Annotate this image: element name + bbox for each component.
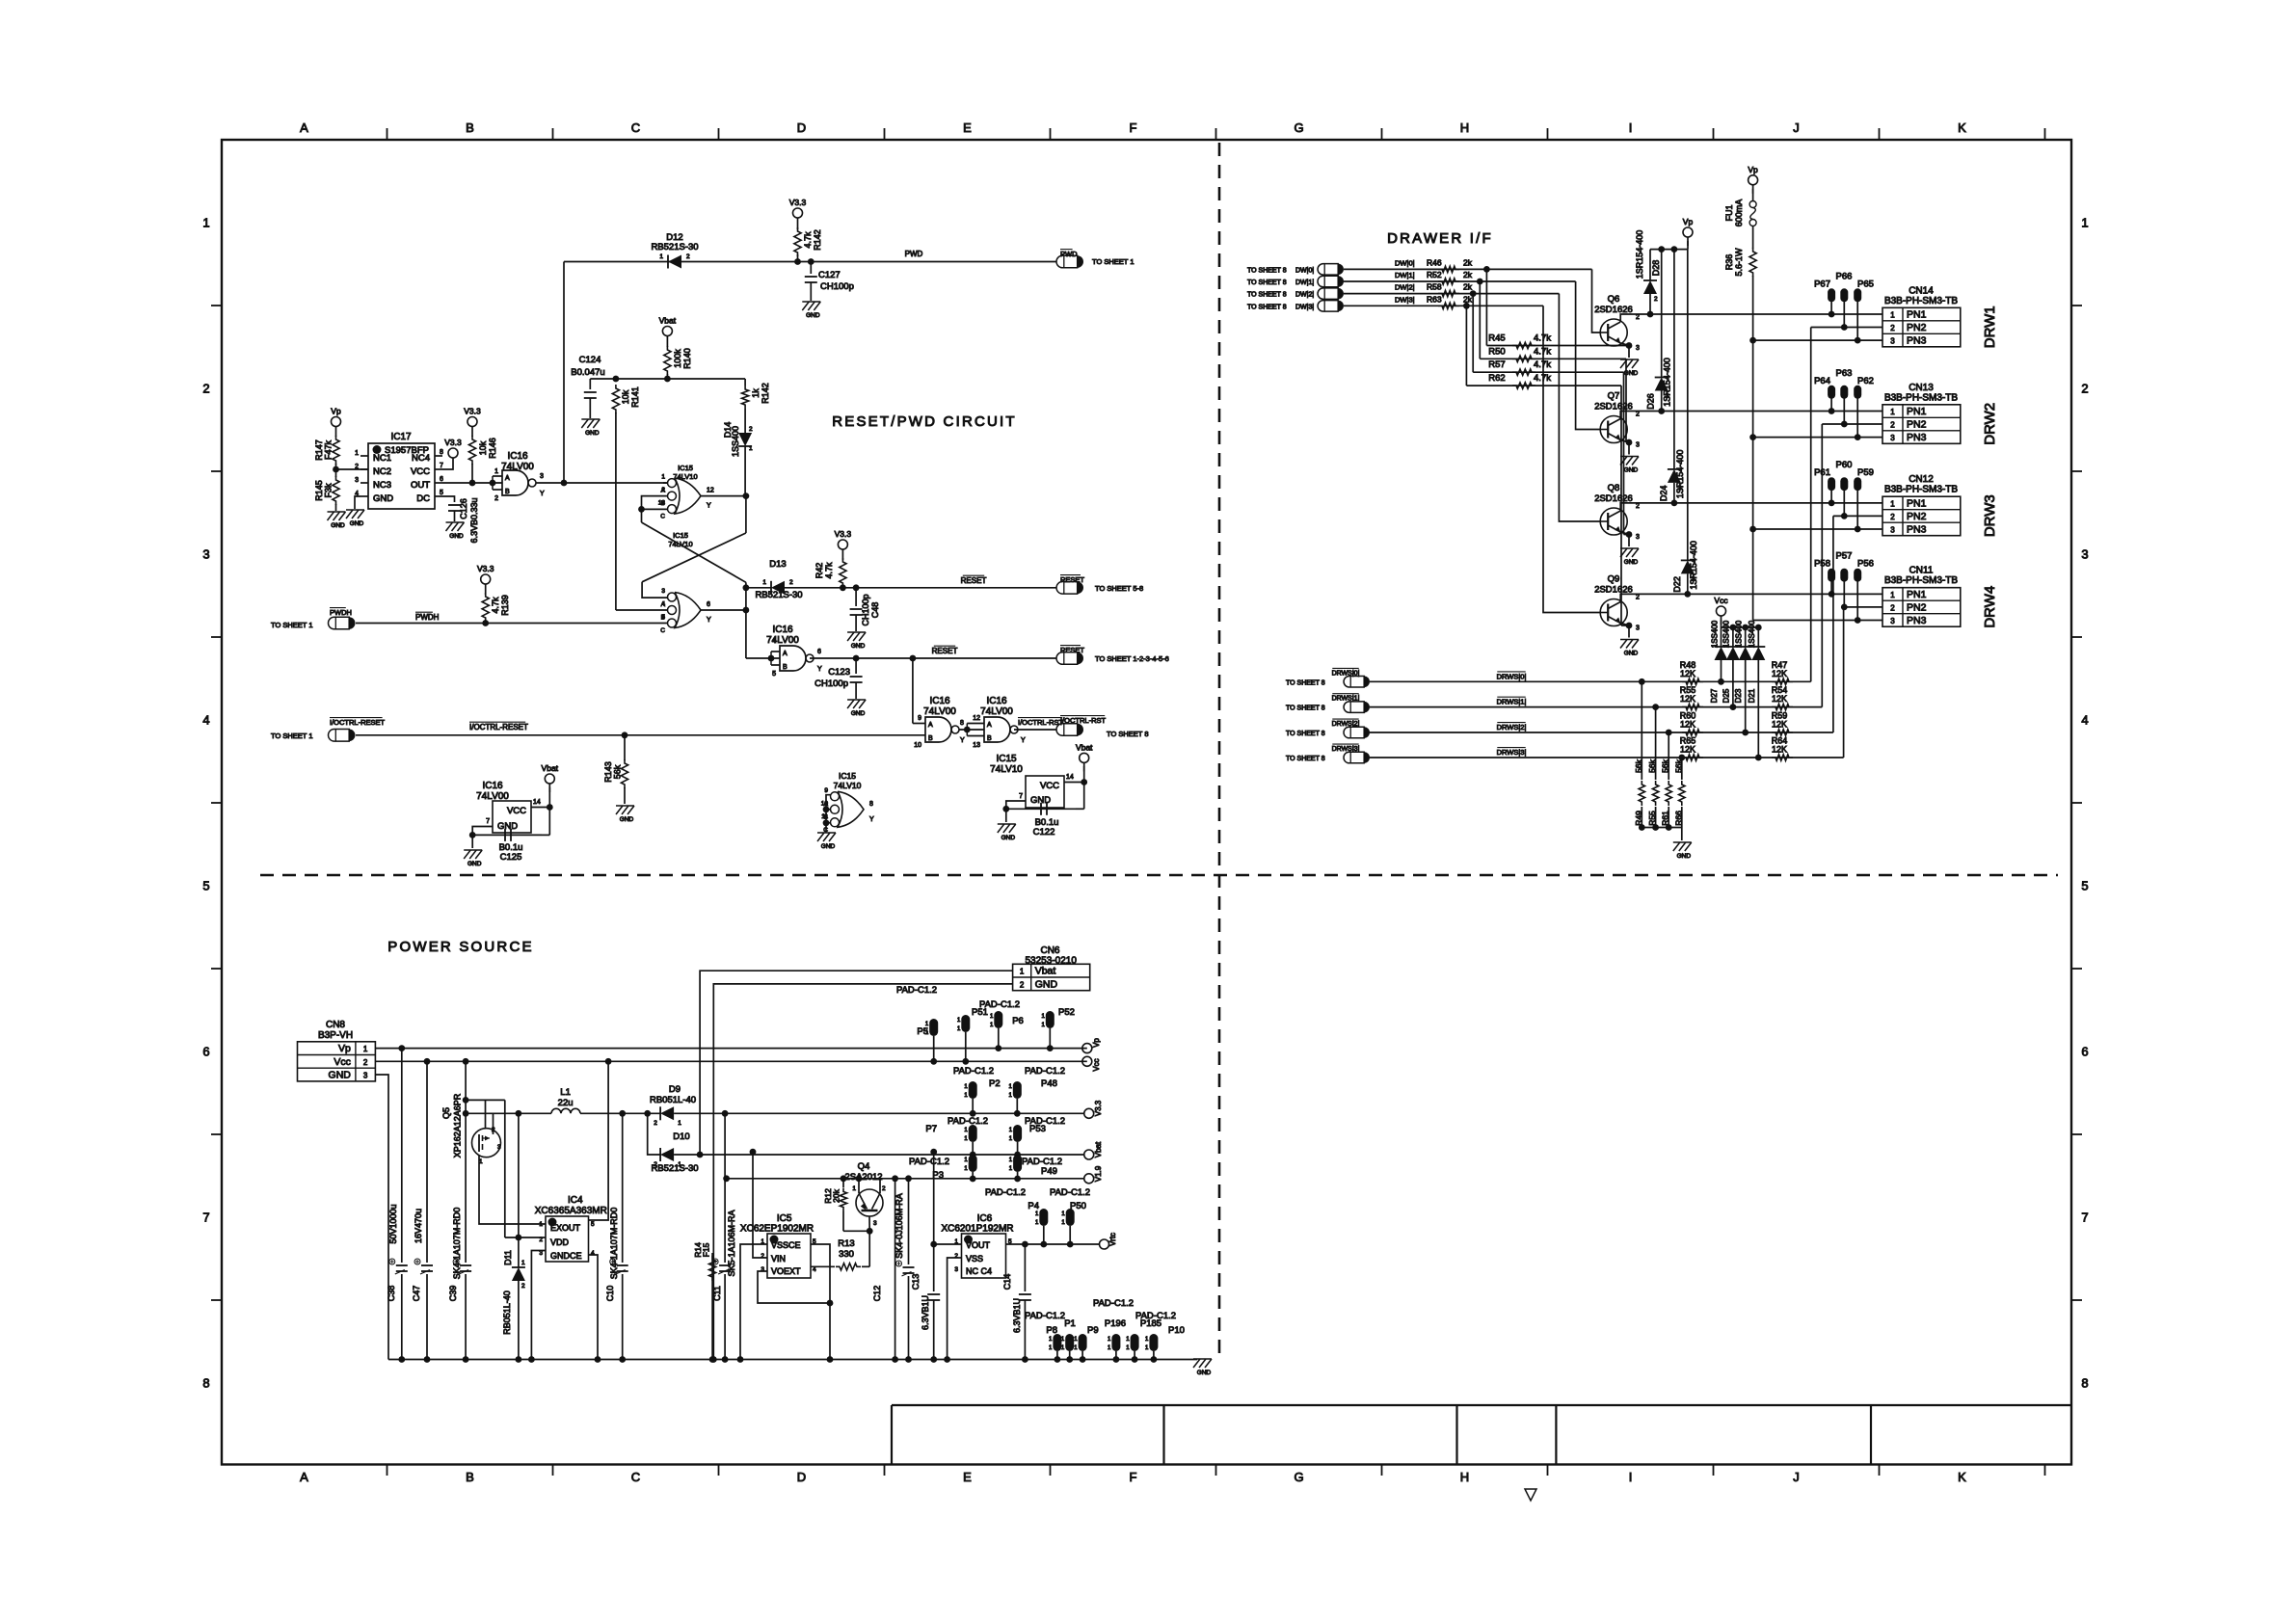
svg-text:PN2: PN2 — [1907, 602, 1927, 614]
svg-text:RB521S-30: RB521S-30 — [651, 242, 698, 253]
svg-text:GND: GND — [1624, 651, 1639, 657]
svg-text:4.7k: 4.7k — [1534, 346, 1551, 357]
svg-text:Q6: Q6 — [1608, 294, 1620, 305]
junction to NAND C — [910, 655, 917, 662]
svg-text:Vbat: Vbat — [1035, 966, 1056, 977]
svg-text:1SS400: 1SS400 — [1710, 620, 1719, 648]
wire PN3 CN13 — [1753, 437, 1882, 439]
svg-text:PAD-C1.2: PAD-C1.2 — [953, 1066, 994, 1077]
svg-text:IC16: IC16 — [986, 696, 1007, 706]
svg-text:50V1000u: 50V1000u — [388, 1204, 398, 1243]
svg-text:Y: Y — [707, 617, 711, 624]
svg-text:C14: C14 — [1002, 1274, 1012, 1290]
svg-text:1: 1 — [749, 445, 753, 452]
svg-text:2: 2 — [1636, 595, 1640, 601]
svg-text:P59: P59 — [1857, 467, 1874, 478]
svg-text:CH100p: CH100p — [861, 594, 870, 625]
svg-text:P1: P1 — [1064, 1318, 1076, 1329]
resistor R140 100k — [666, 345, 668, 348]
capacitor C123 CH100p — [855, 658, 857, 674]
svg-text:2: 2 — [686, 253, 690, 260]
svg-text:GND: GND — [497, 821, 518, 832]
svg-text:2: 2 — [1666, 393, 1669, 400]
svg-text:20k: 20k — [832, 1188, 841, 1202]
svg-text:R55: R55 — [1647, 811, 1657, 826]
svg-text:D9: D9 — [669, 1084, 681, 1095]
wire D14 to latch — [743, 492, 750, 499]
wire V1.9 rail — [727, 1178, 1084, 1180]
svg-text:Y: Y — [540, 491, 545, 497]
svg-text:2k: 2k — [1463, 270, 1473, 279]
wire Q9 emitter to gnd — [1620, 624, 1629, 626]
svg-text:1: 1 — [494, 468, 498, 475]
svg-text:R42: R42 — [814, 563, 824, 579]
svg-text:B3B-PH-SM3-TB: B3B-PH-SM3-TB — [1884, 485, 1958, 495]
svg-text:F15: F15 — [702, 1242, 711, 1257]
svg-text:Y: Y — [960, 737, 965, 744]
capacitor C12 SK4-0J106M-RA — [892, 1175, 898, 1182]
wire IC4 pin2 VDD — [505, 1237, 546, 1238]
svg-text:RESET: RESET — [961, 576, 987, 585]
svg-text:2: 2 — [363, 1058, 368, 1067]
svg-text:TO SHEET 8: TO SHEET 8 — [1107, 730, 1149, 738]
svg-text:C124: C124 — [579, 355, 601, 365]
diode D22 1SR154-400 — [1687, 250, 1689, 561]
svg-text:Vp: Vp — [1748, 165, 1758, 174]
wire DW1 down to emitter resistor — [1479, 281, 1481, 359]
svg-text:PN2: PN2 — [1907, 419, 1927, 431]
svg-text:2: 2 — [1890, 421, 1895, 430]
wire IC5 pin5 — [811, 1244, 830, 1360]
svg-text:1SS400: 1SS400 — [731, 426, 740, 457]
resistor R142 4.7k — [797, 226, 799, 229]
svg-text:1: 1 — [852, 1185, 856, 1192]
capacitor C48 CH100p — [855, 588, 857, 606]
svg-text:F3k: F3k — [324, 483, 334, 498]
svg-text:C122: C122 — [1033, 827, 1055, 838]
resistor R57 4.7k — [1473, 371, 1623, 373]
svg-text:GND: GND — [1677, 853, 1692, 860]
wire L1 node line to D9 — [580, 1112, 660, 1114]
spare gate input ties — [826, 795, 831, 823]
svg-text:8: 8 — [202, 1376, 209, 1391]
svg-text:2: 2 — [654, 1120, 657, 1127]
svg-text:IC16: IC16 — [772, 625, 793, 635]
svg-text:I/OCTRL-RESET: I/OCTRL-RESET — [330, 718, 386, 727]
svg-text:H: H — [1460, 1470, 1469, 1484]
wire IC16A output — [536, 482, 668, 484]
svg-text:5: 5 — [202, 879, 209, 893]
svg-text:R139: R139 — [500, 595, 510, 616]
svg-text:C123: C123 — [828, 667, 850, 678]
wire DW0 row — [1344, 268, 1486, 270]
svg-text:TO SHEET 8: TO SHEET 8 — [1286, 705, 1325, 712]
capacitor C124 B0.047u — [589, 379, 591, 389]
wire PN3 CN12 — [1753, 528, 1882, 530]
svg-text:PN1: PN1 — [1907, 406, 1927, 417]
svg-text:74LV10: 74LV10 — [834, 781, 862, 790]
svg-text:C47: C47 — [412, 1286, 421, 1302]
resistor R50 4.7k — [1480, 358, 1626, 359]
wire Q4 base to rail — [858, 1179, 860, 1193]
svg-text:TO SHEET 8: TO SHEET 8 — [1286, 756, 1325, 762]
svg-text:2: 2 — [761, 1253, 764, 1260]
svg-text:1: 1 — [1890, 500, 1895, 509]
resistor R145 F3k — [335, 469, 337, 477]
svg-text:D21: D21 — [1748, 688, 1756, 703]
svg-text:R36: R36 — [1724, 254, 1734, 271]
svg-text:6: 6 — [707, 601, 710, 608]
resistor R59 12K — [1772, 730, 1793, 735]
svg-text:P196: P196 — [1105, 1318, 1126, 1329]
svg-text:DW|1|: DW|1| — [1295, 279, 1314, 286]
svg-text:TO SHEET 8: TO SHEET 8 — [1247, 267, 1287, 274]
svg-text:Q9: Q9 — [1608, 574, 1620, 585]
svg-text:56k: 56k — [613, 764, 623, 779]
IC17 pin4 gnd — [355, 496, 360, 509]
svg-text:B0.047u: B0.047u — [571, 367, 604, 378]
svg-text:C: C — [631, 120, 640, 135]
svg-text:2SA2012: 2SA2012 — [844, 1172, 882, 1183]
wire CN6 gnd riser — [713, 984, 1012, 1360]
resistor R63 2k — [1438, 303, 1459, 308]
power V3.3 at R146 — [471, 427, 473, 436]
svg-text:74LV00: 74LV00 — [923, 706, 956, 717]
junction C123 — [853, 655, 860, 662]
svg-text:P60: P60 — [1836, 460, 1853, 470]
svg-text:PAD-C1.2: PAD-C1.2 — [896, 985, 937, 996]
junction OUT column — [561, 480, 568, 487]
svg-text:IC15: IC15 — [673, 531, 688, 540]
capacitor C126 — [442, 496, 455, 502]
svg-text:D: D — [797, 120, 806, 135]
svg-text:8: 8 — [440, 449, 443, 456]
svg-text:CN13: CN13 — [1909, 383, 1934, 393]
svg-text:2: 2 — [1654, 296, 1658, 303]
wire PN2 CN13 — [1822, 423, 1882, 425]
resistor R14 F15 — [711, 1253, 713, 1360]
svg-text:PAD-C1.2: PAD-C1.2 — [985, 1187, 1026, 1198]
svg-text:GND: GND — [1001, 835, 1016, 841]
capacitor C13 6.3VB1U — [933, 1152, 935, 1291]
wire gate B output /RESET — [810, 657, 1056, 659]
wire IC6 pin1 from Vbat column — [934, 1243, 962, 1245]
svg-text:C126: C126 — [459, 498, 468, 519]
svg-text:2: 2 — [494, 495, 498, 502]
svg-text:R145: R145 — [314, 480, 324, 501]
power out V3.3 circle — [1084, 1108, 1094, 1118]
svg-text:2: 2 — [1020, 980, 1025, 989]
svg-text:DW|2|: DW|2| — [1295, 292, 1314, 299]
svg-text:5: 5 — [2081, 879, 2088, 893]
svg-text:J: J — [1793, 120, 1800, 135]
svg-text:PWDH: PWDH — [330, 608, 352, 617]
diode D28 1SR154-400 — [1649, 250, 1651, 280]
wire DW0 down to emitter resistor — [1485, 269, 1487, 345]
svg-text:V3.3: V3.3 — [444, 438, 462, 447]
svg-text:P7: P7 — [925, 1124, 937, 1134]
svg-text:DC: DC — [416, 493, 430, 504]
svg-text:VSSCE: VSSCE — [771, 1240, 801, 1250]
capacitor C10 SK4-1A107M-RD0 — [622, 1113, 624, 1263]
svg-text:3: 3 — [363, 1072, 368, 1080]
power V3.3 at R42 — [841, 549, 843, 558]
svg-text:R50: R50 — [1488, 346, 1505, 357]
resistor R55 12K — [1682, 704, 1703, 709]
power out Vrtc circle — [1100, 1239, 1109, 1249]
svg-text:6.3VB1U: 6.3VB1U — [1012, 1298, 1022, 1333]
svg-text:3: 3 — [202, 547, 209, 562]
svg-text:PN3: PN3 — [1907, 524, 1927, 536]
svg-text:2: 2 — [1692, 575, 1695, 582]
svg-text:GND: GND — [1035, 978, 1058, 990]
svg-text:P57: P57 — [1836, 551, 1853, 562]
svg-text:B: B — [987, 735, 992, 742]
svg-text:Vcc: Vcc — [1714, 596, 1728, 605]
svg-text:600mA: 600mA — [1734, 200, 1744, 227]
svg-text:Vcc: Vcc — [1092, 1058, 1101, 1071]
svg-text:DRWS|0|: DRWS|0| — [1497, 672, 1527, 680]
wire Q5 drain — [466, 1099, 505, 1101]
svg-text:IC4: IC4 — [568, 1195, 583, 1206]
svg-text:3: 3 — [2081, 547, 2088, 562]
svg-text:R61: R61 — [1661, 811, 1670, 826]
svg-text:2: 2 — [1636, 412, 1640, 418]
svg-text:I: I — [1629, 120, 1633, 135]
svg-text:10k: 10k — [478, 440, 488, 455]
wire IC17 OUT to IC16 gate — [442, 482, 502, 484]
svg-text:74LV10: 74LV10 — [668, 540, 692, 548]
svg-text:RESET: RESET — [932, 647, 958, 655]
svg-text:14: 14 — [1066, 774, 1074, 781]
wire DW3 row — [1344, 305, 1466, 306]
resistor R36 5.6-1W — [1752, 226, 1754, 250]
resistor R64 12K — [1772, 755, 1793, 760]
svg-text:DW|2|: DW|2| — [1395, 283, 1415, 292]
power Vp rail top — [1687, 237, 1689, 246]
svg-text:R52: R52 — [1427, 270, 1442, 279]
svg-text:4: 4 — [202, 713, 209, 728]
wire DW3 down to emitter resistor — [1465, 306, 1467, 386]
diode D11 — [516, 1235, 522, 1241]
svg-text:14: 14 — [533, 799, 541, 806]
svg-text:2: 2 — [789, 579, 793, 586]
title block — [892, 1404, 2071, 1406]
svg-text:P6: P6 — [1012, 1016, 1024, 1026]
power out Vp circle — [1082, 1044, 1092, 1053]
svg-text:R57: R57 — [1488, 359, 1505, 370]
svg-text:F: F — [1130, 120, 1137, 135]
resistor R52 2k — [1438, 279, 1459, 284]
svg-text:VSS: VSS — [966, 1254, 983, 1264]
svg-text:IC15: IC15 — [678, 464, 693, 472]
svg-text:GND: GND — [821, 843, 836, 850]
svg-text:IC17: IC17 — [390, 432, 412, 442]
svg-text:D26: D26 — [1646, 393, 1656, 410]
svg-text:74LV10: 74LV10 — [673, 472, 697, 481]
capacitor C11 SK5-1A106M-RA — [724, 1113, 726, 1263]
svg-text:DRWS|2|: DRWS|2| — [1497, 723, 1527, 732]
junction DW2 — [1470, 290, 1477, 297]
svg-text:A: A — [300, 120, 308, 135]
svg-text:PN1: PN1 — [1907, 309, 1927, 321]
junction diode col 0 — [1718, 678, 1724, 685]
svg-text:J: J — [1793, 1470, 1800, 1484]
junction DW1 — [1477, 279, 1483, 285]
svg-text:PN2: PN2 — [1907, 322, 1927, 333]
svg-text:CH100p: CH100p — [814, 678, 848, 689]
svg-text:NC3: NC3 — [373, 480, 391, 491]
svg-text:C125: C125 — [500, 852, 522, 863]
svg-text:1: 1 — [1890, 311, 1895, 320]
svg-text:13: 13 — [973, 742, 980, 749]
svg-text:C: C — [631, 1470, 640, 1484]
svg-text:Vbat: Vbat — [1094, 1141, 1103, 1157]
resistor R12 20k — [841, 1175, 847, 1182]
resistor R45 4.7k — [1486, 345, 1629, 347]
wire IC5 pin2 VIN — [753, 1152, 767, 1258]
svg-text:VOUT: VOUT — [966, 1240, 991, 1250]
svg-text:3: 3 — [1890, 337, 1895, 346]
svg-text:4.7k: 4.7k — [1534, 333, 1551, 344]
svg-text:R62: R62 — [1488, 373, 1505, 384]
junction DW3 — [1463, 303, 1470, 309]
diode D27 1SS400 — [1721, 627, 1722, 647]
svg-text:R45: R45 — [1488, 333, 1505, 344]
svg-text:DW|3|: DW|3| — [1395, 295, 1415, 304]
svg-text:C11: C11 — [712, 1286, 722, 1301]
svg-text:3: 3 — [540, 473, 544, 480]
svg-text:2: 2 — [521, 1283, 525, 1290]
wire IC4 pin5 to Vcc — [589, 1061, 609, 1220]
svg-text:VCC: VCC — [1040, 781, 1059, 791]
svg-text:C: C — [660, 627, 665, 634]
wire DW2 row — [1344, 293, 1473, 295]
svg-text:D11: D11 — [503, 1250, 513, 1265]
svg-text:7: 7 — [486, 818, 490, 825]
resistor R46 2k — [1438, 266, 1459, 272]
svg-text:2: 2 — [1636, 503, 1640, 510]
svg-text:D28: D28 — [1651, 260, 1661, 277]
svg-text:CN14: CN14 — [1909, 285, 1934, 296]
capacitor C127 CH100p — [810, 262, 812, 275]
svg-text:PN1: PN1 — [1907, 498, 1927, 510]
svg-text:PAD-C1.2: PAD-C1.2 — [1050, 1187, 1090, 1198]
junction pulldown 2 — [1666, 730, 1672, 736]
wire CN8 gnd — [375, 1075, 388, 1360]
svg-text:Vcc: Vcc — [334, 1056, 351, 1068]
svg-text:A: A — [300, 1470, 308, 1484]
wire gateD output — [1014, 729, 1056, 731]
svg-text:XP162A12A6PR: XP162A12A6PR — [453, 1093, 463, 1157]
svg-text:3: 3 — [1636, 534, 1640, 541]
svg-text:GND: GND — [449, 533, 464, 540]
svg-text:XC62EP1902MR: XC62EP1902MR — [740, 1224, 814, 1235]
resistor R142b 1k — [744, 379, 746, 386]
svg-text:12K: 12K — [1772, 694, 1787, 704]
svg-text:DW|0|: DW|0| — [1295, 267, 1314, 274]
junction R142/PWD — [794, 258, 801, 265]
svg-text:R141: R141 — [630, 386, 640, 408]
svg-text:2: 2 — [1890, 604, 1895, 613]
svg-text:D: D — [797, 1470, 806, 1484]
svg-text:6.3VB0.33u: 6.3VB0.33u — [469, 497, 479, 543]
svg-text:2: 2 — [661, 487, 665, 493]
svg-text:DW|1|: DW|1| — [1395, 271, 1415, 279]
svg-text:56k: 56k — [1634, 758, 1643, 772]
svg-text:C12: C12 — [872, 1286, 882, 1302]
svg-text:9: 9 — [824, 787, 828, 794]
svg-text:7: 7 — [2081, 1211, 2088, 1225]
svg-text:7: 7 — [440, 463, 443, 469]
svg-text:C48: C48 — [870, 602, 880, 619]
svg-text:P66: P66 — [1836, 271, 1853, 281]
svg-text:SK4-0J106M-RA: SK4-0J106M-RA — [894, 1193, 904, 1259]
svg-text:12K: 12K — [1772, 669, 1787, 678]
svg-text:B: B — [783, 664, 788, 671]
wire DRWS3 row — [1370, 757, 1844, 758]
diode D25 1SS400 — [1732, 627, 1734, 647]
power Vcc at sense diodes — [1721, 616, 1722, 625]
svg-text:74LV00: 74LV00 — [980, 706, 1013, 717]
wire IC4 pin4 CE — [589, 1255, 599, 1360]
wire CN6 Vbat riser — [700, 971, 1013, 1155]
capacitor C38 50V1000u — [398, 1045, 405, 1051]
svg-text:GND: GND — [851, 710, 866, 717]
svg-text:6: 6 — [2081, 1045, 2088, 1059]
svg-text:D10: D10 — [673, 1131, 689, 1142]
svg-text:1: 1 — [521, 1260, 525, 1266]
svg-text:3: 3 — [661, 588, 665, 595]
wire PWD line — [564, 261, 1056, 263]
svg-text:1SS400: 1SS400 — [1722, 620, 1731, 648]
svg-text:2: 2 — [1890, 324, 1895, 333]
svg-text:G: G — [1294, 1470, 1303, 1484]
svg-text:V3.3: V3.3 — [789, 198, 807, 207]
svg-text:C: C — [660, 514, 665, 520]
capacitor C14 6.3VB1U — [1024, 1244, 1026, 1291]
svg-text:TO SHEET 1: TO SHEET 1 — [271, 732, 313, 740]
svg-text:DRWS|3|: DRWS|3| — [1497, 748, 1527, 757]
svg-text:FU1: FU1 — [1724, 204, 1734, 221]
svg-text:R143: R143 — [603, 761, 613, 783]
svg-text:Y: Y — [817, 666, 822, 673]
pulldown bus to gnd — [1642, 827, 1682, 829]
svg-text:CN8: CN8 — [326, 1020, 345, 1030]
wire PWDH to gate2 pin C — [356, 623, 668, 625]
svg-text:5.6-1W: 5.6-1W — [1734, 248, 1744, 277]
wire Q7 emitter to gnd — [1620, 440, 1629, 443]
wire gate2 output to RESET node — [701, 609, 746, 611]
svg-text:I: I — [1629, 1470, 1633, 1484]
svg-text:P3: P3 — [932, 1170, 944, 1181]
svg-text:PN3: PN3 — [1907, 615, 1927, 626]
svg-text:GND: GND — [620, 816, 634, 823]
svg-text:K: K — [1958, 1470, 1966, 1484]
svg-text:Vbat: Vbat — [542, 763, 559, 773]
svg-text:10: 10 — [914, 742, 921, 749]
svg-text:2k: 2k — [1463, 257, 1473, 267]
svg-text:D22: D22 — [1672, 576, 1682, 593]
wire PN2 CN11 — [1844, 606, 1882, 608]
svg-text:H: H — [1460, 120, 1469, 135]
svg-text:R142: R142 — [813, 229, 822, 251]
svg-text:P53: P53 — [1029, 1124, 1046, 1134]
svg-text:2: 2 — [355, 464, 359, 470]
wire PN2 CN14 — [1811, 327, 1882, 329]
diode D12 RB521S-30 — [668, 255, 681, 269]
svg-text:VIN: VIN — [771, 1254, 786, 1264]
